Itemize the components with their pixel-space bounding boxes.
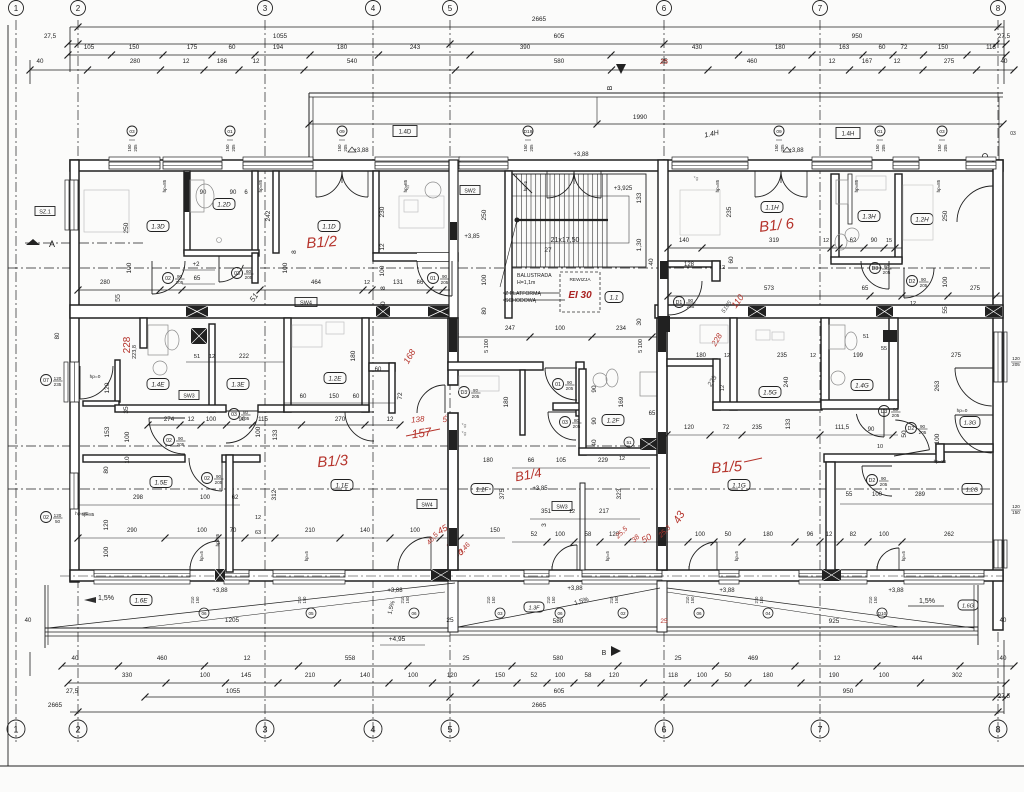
svg-text:100: 100 [555, 326, 566, 332]
svg-text:01: 01 [430, 276, 436, 282]
svg-text:+3,88: +3,88 [719, 588, 735, 594]
svg-text:12: 12 [387, 416, 394, 423]
svg-text:+4,95: +4,95 [389, 636, 406, 643]
svg-text:EI 30: EI 30 [568, 290, 592, 301]
svg-text:01: 01 [877, 129, 883, 135]
svg-text:120: 120 [103, 519, 110, 530]
svg-text:90: 90 [921, 277, 927, 282]
svg-text:205: 205 [343, 144, 348, 152]
svg-text:217: 217 [599, 509, 610, 515]
svg-text:140: 140 [679, 238, 690, 244]
svg-text:1.2D: 1.2D [217, 201, 231, 208]
svg-text:430: 430 [692, 44, 703, 51]
svg-text:hp=5: hp=5 [523, 180, 528, 191]
svg-text:Z PLATFORMĄ: Z PLATFORMĄ [505, 291, 541, 297]
svg-text:02: 02 [165, 276, 171, 282]
svg-text:60: 60 [353, 394, 360, 400]
svg-text:375: 375 [499, 488, 506, 499]
svg-text:263: 263 [934, 380, 941, 391]
svg-text:150: 150 [491, 596, 496, 604]
svg-text:120: 120 [447, 672, 458, 679]
svg-text:540: 540 [347, 58, 358, 65]
svg-text:250: 250 [942, 210, 949, 221]
svg-text:SZ.1: SZ.1 [39, 209, 51, 215]
svg-text:1055: 1055 [273, 33, 288, 40]
svg-text:150: 150 [337, 144, 342, 152]
svg-text:205: 205 [529, 144, 534, 152]
svg-text:100: 100 [872, 492, 883, 498]
svg-text:275: 275 [970, 286, 981, 292]
svg-text:06: 06 [557, 611, 563, 616]
svg-text:289: 289 [915, 492, 926, 498]
svg-text:150: 150 [551, 596, 556, 604]
svg-text:229: 229 [598, 458, 609, 464]
svg-text:03: 03 [234, 271, 240, 277]
svg-text:SW4: SW4 [421, 502, 432, 508]
svg-text:205: 205 [215, 480, 223, 485]
svg-text:8: 8 [380, 286, 387, 290]
svg-text:1.3E: 1.3E [232, 381, 246, 388]
svg-text:52: 52 [531, 672, 538, 679]
svg-text:05: 05 [308, 611, 314, 616]
svg-text:06: 06 [696, 611, 702, 616]
svg-text:82: 82 [850, 532, 857, 538]
svg-text:222: 222 [239, 354, 250, 360]
svg-text:270: 270 [335, 416, 346, 423]
svg-text:1.4H: 1.4H [842, 131, 855, 137]
svg-text:96: 96 [807, 532, 814, 538]
svg-text:210: 210 [305, 528, 316, 534]
svg-text:3: 3 [263, 4, 268, 13]
svg-text:950: 950 [843, 688, 854, 695]
svg-text:150: 150 [873, 596, 878, 604]
svg-text:1.1D: 1.1D [322, 223, 336, 230]
svg-text:1.2F: 1.2F [607, 417, 621, 424]
svg-text:01: 01 [555, 382, 561, 388]
svg-text:120: 120 [609, 672, 620, 679]
svg-text:230: 230 [379, 206, 386, 217]
svg-text:330: 330 [122, 672, 133, 679]
svg-text:150: 150 [302, 596, 307, 604]
svg-text:234: 234 [616, 326, 627, 332]
svg-text:145: 145 [241, 672, 252, 679]
svg-text:100: 100 [481, 274, 488, 285]
svg-text:100: 100 [697, 672, 708, 679]
svg-text:65: 65 [194, 276, 201, 282]
svg-text:80: 80 [893, 407, 899, 412]
svg-text:464: 464 [311, 280, 322, 286]
svg-text:40: 40 [1000, 618, 1007, 624]
svg-text:+3,85: +3,85 [532, 486, 548, 492]
svg-text:70: 70 [230, 528, 237, 534]
svg-text:280: 280 [130, 58, 141, 65]
svg-text:12: 12 [244, 655, 251, 662]
svg-text:605: 605 [554, 688, 565, 695]
svg-text:105: 105 [556, 458, 567, 464]
svg-text:2665: 2665 [532, 16, 547, 23]
svg-text:+3,88: +3,88 [212, 588, 228, 594]
svg-text:580: 580 [553, 618, 564, 625]
svg-text:605: 605 [554, 33, 565, 40]
svg-text:06: 06 [411, 611, 417, 616]
svg-text:140: 140 [360, 528, 371, 534]
svg-text:3: 3 [262, 724, 267, 734]
svg-text:205: 205 [883, 270, 891, 275]
svg-text:950: 950 [852, 33, 863, 40]
svg-text:469: 469 [748, 655, 759, 662]
svg-text:hp=85: hp=85 [258, 179, 263, 192]
svg-text:72: 72 [723, 425, 730, 431]
svg-text:1.6E: 1.6E [135, 597, 149, 604]
svg-text:80: 80 [55, 332, 61, 339]
svg-text:90: 90 [200, 190, 207, 196]
svg-text:150: 150 [405, 596, 410, 604]
svg-text:80: 80 [574, 418, 580, 423]
svg-text:10: 10 [124, 456, 131, 464]
svg-text:247: 247 [505, 326, 516, 332]
svg-text:hp=5: hp=5 [605, 550, 610, 561]
svg-text:02: 02 [204, 476, 210, 482]
svg-text:12: 12 [255, 515, 261, 521]
svg-text:100: 100 [200, 672, 211, 679]
svg-text:09: 09 [776, 129, 782, 135]
svg-text:8: 8 [291, 250, 298, 254]
svg-text:15: 15 [886, 238, 892, 244]
svg-text:66: 66 [417, 280, 424, 286]
svg-text:*g: *g [462, 423, 467, 429]
svg-text:131: 131 [393, 280, 404, 286]
svg-text:72: 72 [397, 392, 404, 400]
svg-text:03: 03 [129, 129, 135, 135]
svg-text:hp=5: hp=5 [304, 550, 309, 561]
svg-text:50: 50 [380, 301, 387, 309]
svg-text:275: 275 [951, 353, 962, 359]
svg-text:12: 12 [834, 655, 841, 662]
svg-text:205: 205 [880, 482, 888, 487]
svg-text:180: 180 [337, 44, 348, 51]
svg-text:51: 51 [626, 440, 632, 445]
svg-text:100: 100 [695, 532, 706, 538]
svg-text:128: 128 [684, 262, 695, 268]
svg-text:1.2G: 1.2G [966, 487, 979, 493]
svg-text:205: 205 [566, 386, 574, 391]
svg-text:60: 60 [728, 256, 735, 264]
svg-text:573: 573 [764, 286, 775, 292]
svg-text:90: 90 [920, 424, 926, 429]
svg-text:6: 6 [662, 4, 667, 13]
svg-text:+3,88: +3,88 [573, 152, 589, 158]
svg-text:262: 262 [944, 532, 955, 538]
svg-text:06: 06 [201, 611, 207, 616]
svg-text:90: 90 [230, 190, 237, 196]
svg-text:80: 80 [103, 466, 110, 474]
svg-text:REWIZJA: REWIZJA [569, 277, 591, 283]
svg-text:175: 175 [187, 44, 198, 51]
svg-text:120: 120 [1012, 504, 1020, 509]
svg-text:60: 60 [879, 44, 886, 51]
svg-text:+3,88: +3,88 [888, 588, 904, 594]
svg-text:03: 03 [562, 420, 568, 426]
svg-text:12: 12 [894, 58, 901, 65]
svg-text:100: 100 [555, 672, 566, 679]
svg-text:hp=85: hp=85 [936, 179, 941, 192]
svg-text:hp=0: hp=0 [90, 374, 101, 380]
svg-text:1.5G: 1.5G [763, 389, 777, 396]
svg-text:190: 190 [829, 672, 840, 679]
svg-text:D19: D19 [524, 129, 533, 135]
svg-text:40: 40 [72, 655, 79, 662]
svg-text:100: 100 [103, 546, 110, 557]
svg-text:63: 63 [255, 530, 261, 536]
svg-text:12: 12 [253, 58, 260, 65]
svg-text:55: 55 [942, 306, 949, 314]
svg-text:444: 444 [912, 655, 923, 662]
svg-text:12: 12 [188, 416, 195, 423]
svg-text:205: 205 [573, 424, 581, 429]
svg-text:52: 52 [531, 532, 538, 538]
svg-text:150: 150 [127, 144, 132, 152]
svg-text:323: 323 [616, 488, 623, 499]
svg-text:3: 3 [541, 523, 548, 527]
svg-text:25: 25 [660, 618, 668, 625]
svg-text:169: 169 [618, 396, 625, 407]
svg-text:235: 235 [726, 206, 733, 217]
svg-text:07: 07 [43, 378, 49, 384]
svg-text:150: 150 [937, 144, 942, 152]
svg-text:40: 40 [25, 618, 32, 624]
svg-text:150: 150 [1012, 510, 1020, 515]
svg-text:BALUSTRADA: BALUSTRADA [517, 273, 552, 279]
svg-text:1.4E: 1.4E [152, 381, 166, 388]
svg-text:90: 90 [178, 436, 184, 441]
svg-text:4: 4 [370, 724, 375, 734]
svg-text:205: 205 [687, 304, 695, 309]
svg-text:60: 60 [300, 394, 307, 400]
svg-text:SW2: SW2 [464, 188, 475, 194]
svg-text:1.1: 1.1 [610, 294, 619, 301]
svg-text:55: 55 [115, 294, 122, 302]
svg-text:12: 12 [829, 58, 836, 65]
svg-text:62: 62 [232, 495, 239, 501]
svg-text:12: 12 [720, 385, 726, 391]
svg-text:10: 10 [877, 444, 883, 450]
svg-text:150: 150 [225, 144, 230, 152]
svg-text:275: 275 [944, 58, 955, 65]
svg-text:80: 80 [243, 410, 249, 415]
svg-text:180: 180 [483, 458, 494, 464]
svg-text:580: 580 [554, 58, 565, 65]
svg-text:90: 90 [591, 417, 598, 425]
svg-text:150: 150 [195, 596, 200, 604]
svg-text:100: 100 [206, 416, 217, 423]
svg-text:5: 5 [448, 4, 453, 13]
svg-text:235: 235 [752, 425, 763, 431]
svg-text:12: 12 [910, 301, 916, 307]
svg-text:120: 120 [54, 513, 62, 518]
svg-text:D3: D3 [872, 266, 879, 272]
svg-text:80: 80 [473, 388, 479, 393]
svg-text:100: 100 [126, 262, 133, 273]
svg-text:5: 5 [447, 724, 452, 734]
svg-text:hp=0: hp=0 [957, 408, 968, 414]
svg-text:12: 12 [569, 509, 575, 515]
svg-text:hp=85: hp=85 [934, 459, 947, 464]
svg-text:100: 100 [197, 528, 208, 534]
svg-text:58: 58 [585, 672, 592, 679]
svg-text:8: 8 [995, 724, 1000, 734]
svg-text:205: 205 [943, 144, 948, 152]
svg-text:150: 150 [759, 596, 764, 604]
svg-text:21x17,50: 21x17,50 [551, 237, 580, 244]
svg-text:242: 242 [265, 210, 272, 221]
svg-text:205: 205 [177, 442, 185, 447]
svg-text:319: 319 [769, 238, 780, 244]
svg-text:205: 205 [1012, 362, 1020, 367]
svg-text:118: 118 [668, 672, 678, 679]
svg-text:A: A [49, 239, 55, 249]
svg-text:12: 12 [364, 280, 370, 286]
svg-text:03: 03 [1010, 131, 1016, 137]
svg-text:12: 12 [619, 456, 625, 462]
svg-text:274: 274 [164, 416, 175, 423]
svg-text:+2: +2 [193, 262, 201, 268]
svg-text:25: 25 [659, 59, 668, 66]
svg-text:hp=85: hp=85 [854, 179, 859, 192]
svg-text:1.1E: 1.1E [336, 482, 350, 489]
svg-text:B1/2: B1/2 [306, 233, 339, 252]
svg-text:133: 133 [636, 192, 643, 203]
svg-text:1.5E: 1.5E [155, 479, 169, 486]
svg-text:90: 90 [567, 380, 573, 385]
svg-text:25: 25 [675, 655, 682, 662]
svg-text:1205: 1205 [225, 617, 240, 624]
svg-text:1.3H: 1.3H [862, 213, 876, 220]
svg-text:235: 235 [54, 382, 62, 387]
svg-text:180: 180 [763, 532, 774, 538]
svg-text:140: 140 [360, 672, 371, 679]
svg-text:210: 210 [305, 672, 316, 679]
svg-text:390: 390 [520, 44, 531, 51]
svg-text:40: 40 [591, 439, 598, 447]
svg-text:186: 186 [217, 58, 228, 65]
svg-text:D3: D3 [881, 409, 888, 415]
svg-text:100: 100 [410, 528, 421, 534]
svg-text:SW4: SW4 [300, 300, 312, 306]
svg-text:180: 180 [775, 44, 786, 51]
svg-text:120: 120 [54, 376, 62, 381]
svg-text:100: 100 [555, 532, 566, 538]
svg-text:90: 90 [688, 298, 694, 303]
svg-text:180: 180 [503, 396, 510, 407]
svg-text:5 100: 5 100 [638, 339, 644, 353]
svg-text:25: 25 [463, 655, 470, 662]
svg-text:150: 150 [938, 44, 949, 51]
svg-text:205: 205 [919, 430, 927, 435]
svg-text:138: 138 [411, 414, 426, 424]
svg-text:60: 60 [375, 367, 382, 373]
svg-text:12: 12 [719, 265, 725, 271]
svg-text:04: 04 [765, 611, 771, 616]
svg-text:90: 90 [881, 476, 887, 481]
svg-text:351: 351 [541, 509, 552, 515]
svg-text:90: 90 [216, 474, 222, 479]
svg-text:205: 205 [441, 280, 449, 285]
svg-text:290: 290 [127, 528, 138, 534]
svg-text:150: 150 [690, 596, 695, 604]
svg-text:40: 40 [1000, 655, 1007, 662]
svg-text:205: 205 [133, 144, 138, 152]
svg-text:120: 120 [1012, 356, 1020, 361]
svg-text:D2: D2 [908, 426, 915, 432]
svg-text:03: 03 [231, 412, 237, 418]
svg-text:1055: 1055 [226, 688, 241, 695]
svg-text:51: 51 [863, 334, 869, 340]
svg-text:180: 180 [696, 353, 707, 359]
svg-text:133: 133 [272, 429, 279, 440]
svg-text:D2: D2 [909, 279, 916, 285]
svg-text:27: 27 [544, 247, 552, 254]
svg-text:35: 35 [123, 406, 130, 414]
svg-text:90: 90 [442, 274, 448, 279]
svg-text:6: 6 [661, 724, 666, 734]
svg-text:194: 194 [273, 44, 284, 51]
svg-text:100: 100 [934, 433, 941, 444]
svg-text:80: 80 [884, 264, 890, 269]
svg-text:280: 280 [100, 280, 111, 286]
svg-text:+3,88: +3,88 [387, 588, 403, 594]
svg-text:100: 100 [255, 426, 262, 437]
svg-text:58: 58 [585, 532, 592, 538]
svg-text:SW3: SW3 [556, 504, 567, 510]
svg-text:02: 02 [166, 438, 172, 444]
svg-text:40: 40 [37, 58, 44, 65]
svg-text:1,5%: 1,5% [919, 598, 935, 605]
svg-text:1.2H: 1.2H [915, 216, 929, 223]
svg-text:2665: 2665 [48, 702, 63, 709]
svg-text:100: 100 [282, 262, 289, 273]
svg-text:580: 580 [553, 655, 564, 662]
svg-text:hp=5: hp=5 [901, 550, 906, 561]
svg-text:D2: D2 [869, 478, 876, 484]
svg-text:2: 2 [75, 724, 80, 734]
svg-text:120: 120 [684, 425, 695, 431]
svg-text:7: 7 [818, 4, 823, 13]
svg-text:12: 12 [810, 353, 816, 359]
svg-text:27,5: 27,5 [44, 33, 57, 40]
svg-text:hp=85: hp=85 [75, 511, 89, 517]
svg-text:66: 66 [528, 458, 535, 464]
svg-text:12: 12 [724, 353, 730, 359]
svg-text:B1/5: B1/5 [711, 458, 744, 477]
svg-text:hp=85: hp=85 [162, 179, 167, 192]
svg-text:25: 25 [446, 617, 454, 624]
svg-text:100: 100 [879, 532, 890, 538]
svg-text:1.1H: 1.1H [765, 204, 779, 211]
svg-text:09: 09 [339, 129, 345, 135]
svg-text:150: 150 [490, 528, 501, 534]
svg-text:H=1,1m: H=1,1m [517, 280, 535, 286]
svg-text:SCHODOWĄ: SCHODOWĄ [505, 298, 537, 304]
svg-text:51: 51 [194, 354, 200, 360]
svg-text:5 100: 5 100 [484, 339, 490, 353]
svg-text:199: 199 [853, 353, 864, 359]
svg-text:150: 150 [875, 144, 880, 152]
svg-text:01: 01 [227, 129, 233, 135]
svg-text:hp=85: hp=85 [715, 179, 720, 192]
svg-text:100: 100 [200, 495, 211, 501]
svg-text:12: 12 [823, 238, 829, 244]
svg-text:1.4D: 1.4D [399, 129, 412, 135]
